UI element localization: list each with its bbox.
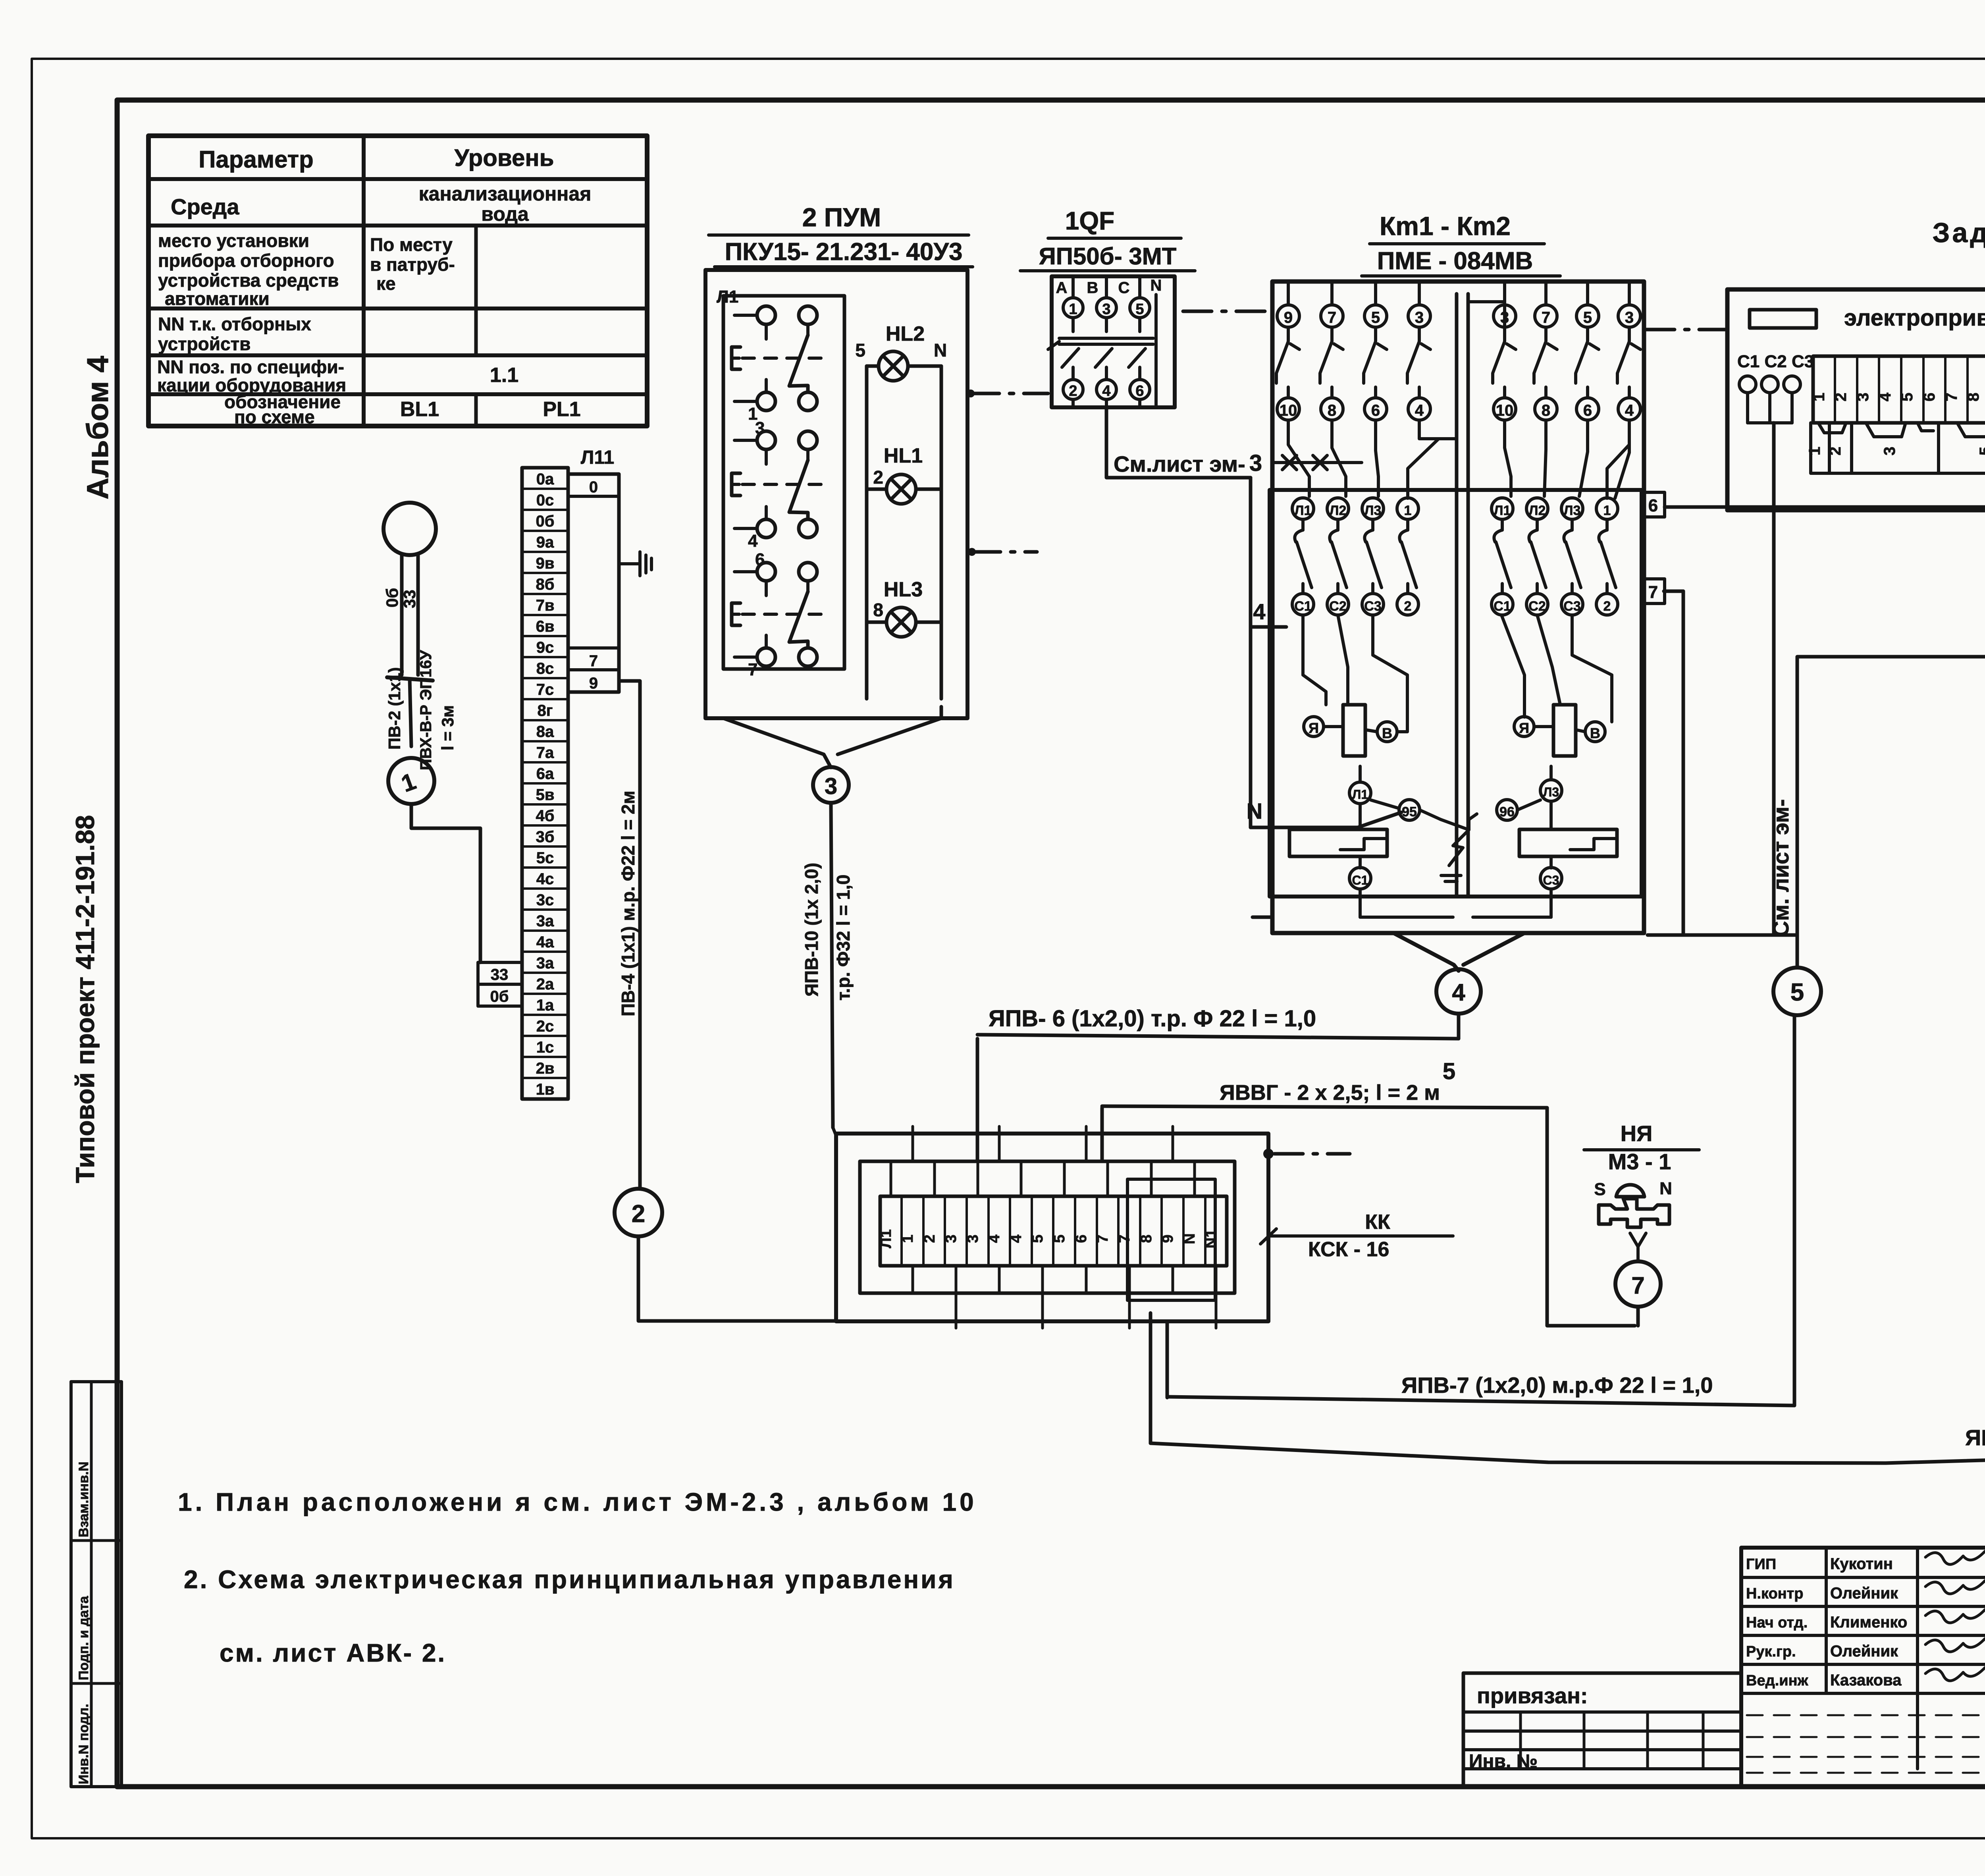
- dash-dot link Km box to Задвижка: [1646, 328, 1725, 332]
- dash-dot stub right of KK: [1263, 1149, 1274, 1159]
- svg-text:ПКУ15- 21.231- 40У3: ПКУ15- 21.231- 40У3: [725, 238, 963, 266]
- svg-text:7: 7: [1095, 1234, 1111, 1243]
- SB2 contact blade: [789, 460, 808, 519]
- Km2 aux contact 3-4: [1618, 305, 1640, 327]
- wires С1-С3 to bus: [1746, 393, 1749, 423]
- svg-text:4б: 4б: [536, 807, 555, 825]
- svg-text:6: 6: [1135, 383, 1144, 399]
- svg-text:А: А: [1056, 279, 1068, 297]
- svg-text:7с: 7с: [536, 681, 554, 698]
- svg-text:3: 3: [1102, 301, 1110, 318]
- Km inner terminal 6: [1642, 492, 1665, 517]
- svg-text:3: 3: [943, 1234, 960, 1243]
- svg-text:С2: С2: [1329, 599, 1346, 614]
- wire node 3 to box KK: [831, 803, 833, 1128]
- svg-text:Л1: Л1: [1494, 503, 1511, 518]
- svg-text:5: 5: [855, 340, 865, 361]
- SB2 actuator: [732, 473, 740, 496]
- svg-text:3: 3: [1854, 393, 1872, 401]
- svg-text:6: 6: [1648, 496, 1658, 515]
- valve lower terminal row: [1811, 423, 1829, 473]
- svg-text:9а: 9а: [536, 534, 554, 551]
- svg-text:Казакова: Казакова: [1830, 1672, 1902, 1689]
- Km coil left (Km1): [1343, 705, 1365, 756]
- svg-text:7: 7: [1116, 1234, 1133, 1243]
- svg-text:5: 5: [1790, 979, 1804, 1006]
- svg-text:9: 9: [1284, 309, 1293, 326]
- svg-text:NN поз. по специфи-: NN поз. по специфи-: [157, 357, 344, 377]
- svg-text:5: 5: [1051, 1234, 1068, 1243]
- svg-text:2: 2: [632, 1200, 645, 1228]
- svg-text:Л11: Л11: [581, 447, 614, 468]
- svg-text:С1: С1: [1294, 599, 1311, 614]
- svg-text:2 ПУМ: 2 ПУМ: [802, 202, 881, 232]
- svg-text:Олейник: Олейник: [1830, 1585, 1898, 1602]
- svg-text:Альбом 4: Альбом 4: [81, 356, 115, 499]
- dash-dot link 1QF to Km box: [1183, 310, 1270, 313]
- thermal trip lever symbol: [1441, 814, 1477, 830]
- junction box KK outer: [836, 1134, 1268, 1321]
- svg-text:В: В: [1590, 725, 1600, 741]
- feeder line N: [1251, 812, 1401, 827]
- node 2: [615, 1189, 662, 1236]
- Km coil right (Km2): [1553, 705, 1576, 756]
- svg-text:Инв.N подл.: Инв.N подл.: [76, 1704, 91, 1784]
- svg-text:устройств: устройств: [158, 334, 251, 354]
- svg-text:Параметр: Параметр: [198, 146, 314, 173]
- title block signature table: [1741, 1548, 1985, 1787]
- svg-text:Среда: Среда: [171, 194, 239, 219]
- svg-text:3: 3: [965, 1234, 981, 1243]
- svg-text:3: 3: [1415, 309, 1424, 326]
- svg-text:5: 5: [1898, 393, 1916, 401]
- привязан table: [1463, 1673, 1741, 1787]
- Km main contact 1 (group 1): [1397, 498, 1418, 519]
- svg-text:Н.контр: Н.контр: [1746, 1585, 1804, 1602]
- wire bell to node 7: [1630, 1233, 1646, 1247]
- level sensor BL1 symbol: [384, 503, 436, 555]
- left margin stamp strip (Взам.инв.N / Подп. и дата / Инв.N подл.): [71, 1382, 121, 1787]
- svg-text:5: 5: [1029, 1234, 1046, 1243]
- svg-text:6: 6: [755, 550, 765, 569]
- wires С1 С3 to box bottom: [1359, 889, 1362, 917]
- svg-text:ЯП50б- 3МТ: ЯП50б- 3МТ: [1039, 243, 1177, 270]
- Km thermal relay right: [1519, 829, 1617, 856]
- svg-text:4а: 4а: [536, 933, 554, 951]
- indicator rectangle: [1750, 310, 1816, 328]
- svg-text:6: 6: [1921, 393, 1938, 401]
- alarm bell symbol М3-1: [1616, 1185, 1644, 1197]
- svg-text:ПВ-4 (1х1) м.р. Ф22 l = 2м: ПВ-4 (1х1) м.р. Ф22 l = 2м: [618, 791, 638, 1016]
- svg-text:3: 3: [825, 773, 837, 799]
- inner box of 2 ПУМ: [723, 296, 844, 669]
- svg-text:4: 4: [1625, 402, 1634, 419]
- svg-text:0б: 0б: [536, 513, 555, 530]
- wire valve С bus down: [1648, 423, 1774, 935]
- wire node 1 to terminal strip: [411, 804, 480, 962]
- svg-text:BL1: BL1: [400, 398, 439, 421]
- auxiliary contacts 95 / 96: [1399, 800, 1420, 820]
- svg-text:1: 1: [1810, 393, 1828, 401]
- KK wiring comb: [890, 1161, 892, 1196]
- svg-text:8: 8: [873, 600, 883, 620]
- cable ЯПВ-7 wire: [1167, 1015, 1794, 1406]
- Km cross wires: [1408, 439, 1439, 498]
- svg-text:5с: 5с: [536, 849, 554, 867]
- svg-text:ПМЕ - 084МВ: ПМЕ - 084МВ: [1377, 247, 1533, 275]
- svg-text:95: 95: [1402, 804, 1417, 819]
- svg-text:2: 2: [921, 1234, 938, 1243]
- svg-text:В: В: [1382, 725, 1392, 741]
- svg-text:6в: 6в: [536, 618, 555, 635]
- svg-text:7: 7: [748, 660, 757, 679]
- svg-text:В: В: [1087, 279, 1098, 297]
- svg-text:5: 5: [1977, 447, 1985, 455]
- box Задвижка (electric valve drive): [1727, 289, 1985, 510]
- svg-text:2а: 2а: [536, 976, 554, 993]
- svg-text:Взам.инв.N: Взам.инв.N: [76, 1461, 91, 1537]
- svg-text:7а: 7а: [536, 744, 554, 762]
- svg-text:С: С: [1118, 279, 1130, 297]
- SB3 contact blade: [789, 592, 808, 648]
- svg-text:1с: 1с: [536, 1039, 554, 1056]
- svg-text:2: 2: [1603, 599, 1611, 614]
- wire Km terminal 6 to ПС: [1665, 505, 1985, 509]
- node 4: [1436, 969, 1481, 1014]
- 1QF N pole wire: [1154, 295, 1158, 405]
- lamp bus wires: [867, 364, 879, 368]
- Km thermal relay left: [1289, 829, 1387, 856]
- svg-text:4: 4: [1452, 979, 1465, 1006]
- svg-text:3: 3: [1881, 447, 1898, 455]
- svg-text:9: 9: [1160, 1234, 1176, 1243]
- wire cable to node 1: [410, 679, 411, 746]
- wire KK to ЯПВ-2: [1149, 1313, 1152, 1443]
- svg-text:7: 7: [1631, 1272, 1644, 1299]
- svg-text:По месту: По месту: [370, 234, 453, 255]
- 1QF pole contact 3/4: [1097, 298, 1116, 318]
- Km centre bus wires: [1455, 294, 1459, 897]
- Km main contact Л2 (group 1): [1327, 498, 1349, 519]
- svg-text:6а: 6а: [536, 765, 554, 783]
- svg-text:0а: 0а: [536, 470, 554, 488]
- svg-text:7: 7: [1648, 582, 1658, 602]
- pushbutton SB3: [757, 563, 775, 581]
- svg-text:Л3: Л3: [1543, 785, 1559, 799]
- svg-text:8г: 8г: [538, 702, 553, 719]
- node 1: [388, 758, 434, 804]
- svg-text:Вед.инж: Вед.инж: [1746, 1672, 1809, 1689]
- svg-text:NN т.к. отборных: NN т.к. отборных: [158, 314, 311, 334]
- svg-text:Кукотин: Кукотин: [1830, 1555, 1893, 1573]
- svg-text:0б: 0б: [383, 588, 401, 607]
- svg-text:8а: 8а: [536, 723, 554, 740]
- svg-text:2с: 2с: [536, 1018, 554, 1035]
- svg-text:Нач отд.: Нач отд.: [1746, 1614, 1808, 1631]
- valve strip jumpers: [1818, 423, 1846, 433]
- svg-text:3: 3: [1249, 450, 1262, 476]
- svg-text:7: 7: [589, 652, 598, 670]
- wire node 7 to cable: [1636, 1307, 1640, 1326]
- 1QF pole contact 1/2: [1063, 298, 1083, 318]
- wire funnel to node 3: [723, 718, 831, 767]
- wire valve terminal 5 to node 5: [1797, 510, 1985, 968]
- svg-text:2: 2: [1069, 383, 1077, 399]
- svg-text:ЯПВ-10 (1х 2,0): ЯПВ-10 (1х 2,0): [801, 863, 822, 997]
- svg-text:т.р. Ф32 l = 1,0: т.р. Ф32 l = 1,0: [833, 875, 854, 1001]
- Km main contact Л3 (group 2): [1561, 498, 1583, 519]
- 1QF trip bar: [1059, 337, 1153, 340]
- svg-text:N1: N1: [1203, 1229, 1220, 1249]
- Km box bottom extension: [1253, 916, 1272, 919]
- svg-text:НЯ: НЯ: [1621, 1121, 1653, 1146]
- junction box KK middle: [860, 1161, 1235, 1293]
- svg-text:8б: 8б: [536, 576, 555, 593]
- box 1QF: [1052, 276, 1175, 407]
- svg-text:канализационная: канализационная: [419, 183, 592, 205]
- svg-text:3: 3: [755, 418, 765, 438]
- Km main contact Л2 (group 2): [1526, 498, 1548, 519]
- svg-text:7в: 7в: [536, 597, 555, 614]
- svg-text:см. лист АВК- 2.: см. лист АВК- 2.: [220, 1639, 446, 1667]
- svg-text:С3: С3: [1563, 599, 1580, 614]
- svg-text:9: 9: [589, 675, 598, 692]
- svg-text:3а: 3а: [536, 954, 554, 972]
- svg-text:0с: 0с: [536, 492, 554, 509]
- left feeder verticals: [1249, 478, 1253, 827]
- svg-text:4: 4: [1008, 1234, 1025, 1243]
- svg-text:С3: С3: [1364, 599, 1381, 614]
- Km inner contact box: [1270, 490, 1642, 897]
- svg-text:ЯПВ- 6 (1х2,0) т.р. Ф 22 l: ЯПВ- 6 (1х2,0) т.р. Ф 22 l = 1,0: [989, 1006, 1316, 1032]
- svg-text:в патруб-: в патруб-: [370, 254, 455, 275]
- cable ЯПВ-2 wire: [1151, 1427, 1985, 1463]
- wire stubs SB2: [734, 439, 757, 442]
- svg-text:С1: С1: [1352, 873, 1368, 887]
- terminal strip Л11: [522, 468, 568, 1099]
- svg-text:1: 1: [1806, 447, 1823, 455]
- svg-text:2в: 2в: [536, 1060, 555, 1077]
- svg-text:N: N: [1247, 798, 1262, 823]
- svg-text:1в: 1в: [536, 1081, 555, 1098]
- svg-text:С2: С2: [1528, 599, 1546, 614]
- Km1 aux contact 9-10: [1277, 305, 1299, 327]
- Km inner terminal 7: [1642, 579, 1665, 603]
- svg-text:прибора отборного: прибора отборного: [158, 250, 334, 271]
- svg-text:См. лист эм-: См. лист эм-: [1768, 799, 1793, 937]
- svg-text:Л3: Л3: [1364, 503, 1382, 518]
- Km main contact Л3 (group 1): [1362, 498, 1384, 519]
- svg-text:Л1: Л1: [1352, 787, 1368, 802]
- svg-text:HL2: HL2: [886, 322, 925, 345]
- pushbutton SB2: [757, 431, 775, 449]
- svg-text:С1 С2 С3: С1 С2 С3: [1737, 352, 1814, 371]
- svg-text:96: 96: [1499, 804, 1515, 819]
- svg-text:Олейник: Олейник: [1830, 1643, 1898, 1660]
- svg-text:4: 4: [986, 1234, 1003, 1243]
- svg-text:1: 1: [900, 1234, 916, 1243]
- funnel to node 4: [1393, 933, 1459, 971]
- svg-text:Подп. и дата: Подп. и дата: [76, 1596, 91, 1680]
- svg-text:0б: 0б: [490, 988, 509, 1005]
- terminal strip right column: [568, 474, 619, 692]
- Km1 aux contact 7-8: [1321, 305, 1343, 327]
- svg-text:6: 6: [1583, 402, 1592, 419]
- cable ЯВВГ wire: [1102, 1106, 1635, 1326]
- Km2 aux contact 5-6: [1576, 305, 1599, 327]
- svg-text:2: 2: [873, 467, 883, 488]
- svg-text:Л1: Л1: [878, 1229, 894, 1248]
- svg-text:ГИП: ГИП: [1746, 1556, 1776, 1573]
- wire from BL1 down: [400, 555, 404, 611]
- svg-text:4: 4: [1253, 599, 1265, 624]
- wire node 2 to box KK: [638, 1236, 836, 1321]
- svg-text:1.1: 1.1: [490, 364, 518, 387]
- svg-text:4с: 4с: [536, 870, 554, 888]
- svg-text:КК: КК: [1365, 1211, 1390, 1234]
- svg-text:4: 4: [1415, 402, 1424, 419]
- svg-text:l = 3м: l = 3м: [438, 705, 457, 750]
- wire stubs SB1: [734, 314, 757, 317]
- svg-text:5: 5: [1371, 309, 1380, 326]
- node 3: [813, 767, 849, 803]
- svg-text:4: 4: [748, 531, 758, 551]
- extra KK nest rect: [1127, 1179, 1215, 1300]
- svg-text:5: 5: [1135, 301, 1144, 318]
- Km main contact 1 (group 2): [1596, 498, 1618, 519]
- svg-text:Л3: Л3: [1564, 503, 1581, 518]
- svg-text:3б: 3б: [536, 828, 555, 846]
- valve terminal strip 1..20: [1813, 356, 1985, 423]
- svg-text:устройства средств: устройства средств: [158, 270, 339, 291]
- svg-text:8с: 8с: [536, 660, 554, 677]
- svg-text:См.лист эм-: См.лист эм-: [1114, 451, 1245, 476]
- ground symbol: [619, 562, 640, 565]
- svg-text:4: 4: [1102, 383, 1110, 399]
- Km2 aux contact 3-10: [1494, 305, 1516, 327]
- svg-text:5: 5: [1443, 1059, 1455, 1084]
- svg-text:6: 6: [1073, 1234, 1090, 1243]
- wire node 4 to cable ЯПВ-6: [1457, 1014, 1461, 1039]
- dash-dot link 2ПУМ lower: [968, 548, 976, 556]
- svg-text:3: 3: [1625, 309, 1634, 326]
- svg-text:привязан:: привязан:: [1477, 1683, 1588, 1708]
- svg-text:4: 4: [1877, 392, 1894, 401]
- svg-text:2. Схема электрическая при: 2. Схема электрическая принципиальная уп…: [184, 1565, 955, 1594]
- svg-text:9в: 9в: [536, 555, 555, 572]
- dash-dot link 2ПУМ to 1QF: [971, 392, 1048, 395]
- svg-text:S: S: [1594, 1180, 1605, 1199]
- svg-text:1: 1: [1404, 503, 1412, 518]
- svg-text:КСК - 16: КСК - 16: [1308, 1238, 1389, 1261]
- svg-text:5в: 5в: [536, 786, 555, 804]
- svg-text:Типовой проект 411-2-191.88: Типовой проект 411-2-191.88: [70, 815, 100, 1183]
- svg-text:HL3: HL3: [884, 578, 923, 601]
- KK terminal strip: [880, 1196, 1227, 1266]
- svg-text:Л1: Л1: [1295, 503, 1312, 518]
- svg-text:33: 33: [491, 966, 509, 983]
- svg-text:Уровень: Уровень: [455, 145, 554, 171]
- svg-text:7: 7: [1328, 309, 1336, 326]
- Km main contact Л1 (group 1): [1292, 498, 1314, 519]
- svg-text:0: 0: [589, 478, 598, 496]
- svg-text:8: 8: [1542, 402, 1550, 419]
- svg-text:ке: ке: [376, 273, 396, 294]
- svg-text:электропривод задвижки: электропривод задвижки: [1844, 305, 1985, 331]
- svg-text:1: 1: [1603, 503, 1611, 518]
- box Km1-Km2: [1272, 281, 1644, 933]
- svg-text:ПВХ-В-Р ЭП16У: ПВХ-В-Р ЭП16У: [417, 650, 435, 770]
- svg-text:2: 2: [1827, 447, 1844, 455]
- Km coil wiring: [1303, 615, 1326, 705]
- svg-text:Л2: Л2: [1529, 503, 1546, 518]
- svg-text:Я: Я: [1309, 720, 1319, 736]
- wire KK to ЯПВ-7: [1166, 1321, 1169, 1398]
- svg-text:33: 33: [400, 590, 419, 608]
- Km1 aux contact 3-4: [1408, 305, 1430, 327]
- svg-text:вода: вода: [481, 203, 529, 225]
- svg-text:С3: С3: [1543, 873, 1559, 887]
- cable ЯПВ-6 wire: [977, 1035, 1459, 1039]
- svg-text:8: 8: [1138, 1234, 1155, 1243]
- svg-text:ЯВВГ - 2 х 2,5; l = 2 м: ЯВВГ - 2 х 2,5; l = 2 м: [1220, 1081, 1440, 1105]
- svg-text:3с: 3с: [536, 891, 554, 909]
- jumper boxes 33 / 0б: [478, 962, 522, 984]
- cable end bar: [387, 677, 433, 681]
- SB1 contact blade: [789, 335, 808, 392]
- svg-text:1: 1: [1069, 301, 1077, 318]
- svg-text:ПВ-2 (1х1): ПВ-2 (1х1): [385, 667, 404, 750]
- svg-text:HL1: HL1: [884, 444, 923, 467]
- svg-text:Л2: Л2: [1330, 503, 1347, 518]
- svg-text:2: 2: [1404, 599, 1412, 614]
- wire ЯПВ-6 into KK: [976, 1039, 979, 1161]
- svg-text:место установки: место установки: [158, 230, 309, 251]
- SB3 actuator: [732, 603, 740, 625]
- node 5: [1773, 968, 1821, 1015]
- Km main contact Л1 (group 2): [1492, 498, 1513, 519]
- box 2 ПУМ: [705, 270, 967, 718]
- svg-text:М3 - 1: М3 - 1: [1608, 1149, 1671, 1174]
- Km1 aux contact 5-6: [1364, 305, 1387, 327]
- wire ЯПВ-10 into KK: [833, 1128, 836, 1136]
- svg-text:Рук.гр.: Рук.гр.: [1746, 1643, 1796, 1660]
- svg-text:по схеме: по схеме: [234, 407, 315, 427]
- svg-text:PL1: PL1: [543, 398, 580, 421]
- svg-text:С1: С1: [1494, 599, 1511, 614]
- svg-text:автоматики: автоматики: [165, 288, 270, 309]
- svg-text:Задвижка: Задвижка: [1933, 217, 1985, 248]
- SB1 actuator: [732, 347, 740, 369]
- svg-text:7: 7: [1542, 309, 1550, 326]
- feeder line 3 marks Ж Ж: [1274, 461, 1362, 464]
- svg-text:N: N: [1181, 1233, 1198, 1244]
- svg-text:Инв. №: Инв. №: [1469, 1751, 1538, 1772]
- svg-text:Кm1 - Кm2: Кm1 - Кm2: [1380, 211, 1511, 241]
- 1QF pole contact 5/6: [1130, 298, 1150, 318]
- svg-text:8: 8: [1965, 393, 1982, 401]
- svg-text:Клименко: Клименко: [1830, 1614, 1907, 1631]
- svg-text:1. План расположени я: 1. План расположени я см. лист ЭМ-2.3 , …: [178, 1488, 977, 1516]
- wire 1QF to line 3: [1106, 407, 1251, 478]
- svg-text:9с: 9с: [536, 639, 554, 656]
- svg-text:1QF: 1QF: [1065, 206, 1114, 235]
- svg-text:Я: Я: [1519, 720, 1529, 736]
- Km2 aux contact 7-8: [1535, 305, 1557, 327]
- svg-text:7: 7: [1943, 393, 1960, 401]
- svg-text:N: N: [1151, 277, 1162, 294]
- pushbutton SB1: [757, 306, 775, 324]
